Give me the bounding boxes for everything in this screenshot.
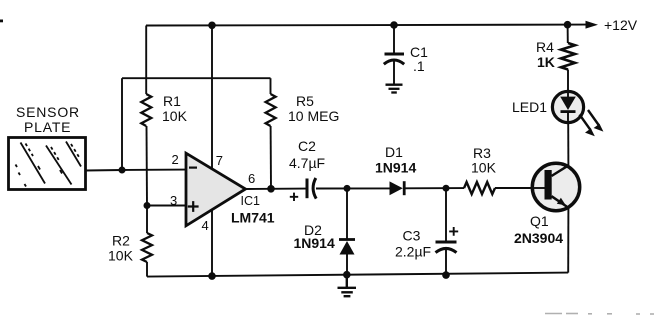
wire R1 bottom to pin3 node [146,126,149,206]
wire feedback left vertical down to pin2 node [121,78,123,170]
diode D1 [390,181,403,195]
capacitor C2 plus sign [290,193,298,201]
svg-text:10K: 10K [471,160,497,176]
svg-text:1K: 1K [537,54,555,70]
stray scan mark left edge [0,20,3,23]
svg-text:R1: R1 [163,93,181,109]
wire R4 to LED1 [567,70,569,92]
wire C1 top stem [393,25,395,53]
node junction top of C1 [390,21,398,29]
svg-text:10K: 10K [108,248,134,264]
svg-text:R5: R5 [296,93,314,109]
node C3 junction [443,185,450,192]
svg-text:D1: D1 [385,144,403,160]
diode D1 cathode bar [403,181,406,195]
node D2 ground junction [343,271,351,279]
sensor plate [9,138,86,190]
wire LED1 to Q1 collector [567,123,569,167]
wire bottom ground rail [147,273,568,277]
op-amp U1 LM741 triangle [186,153,246,226]
resistor R3 [464,182,495,194]
svg-text:IC1: IC1 [241,194,261,208]
node D2 junction [344,185,351,192]
wire left supply vertical to R1 [145,26,147,95]
wire C3 bottom stem [445,250,447,275]
svg-text:.1: .1 [413,58,425,74]
capacitor C3 top plate [436,241,457,244]
svg-text:2N3904: 2N3904 [514,230,563,246]
wire R5 bottom to output node [270,126,272,189]
svg-text:R4: R4 [536,39,554,55]
svg-text:4.7µF: 4.7µF [289,155,325,171]
node junction top of pin7 line [208,22,216,30]
wire R2 bottom stem [146,262,148,277]
node pin3 junction [144,202,151,209]
svg-text:7: 7 [216,153,223,168]
wire pin2 input [122,169,186,171]
ground below D2 [338,275,357,297]
svg-text:10K: 10K [162,108,188,124]
capacitor C3 curved plate [436,248,457,252]
resistor R4 [561,43,575,70]
wire Q1 emitter to bottom rail [567,207,569,273]
wire pin7 vertical [211,25,213,168]
svg-text:SENSOR: SENSOR [16,104,80,120]
svg-text:1N914: 1N914 [375,160,416,176]
svg-text:2.2µF: 2.2µF [395,244,431,260]
wire R2 top stem [146,206,148,234]
svg-text:Q1: Q1 [530,213,549,229]
svg-text:R2: R2 [112,233,130,249]
op-amp minus sign pin2 [189,167,197,169]
wire pin3 input [147,205,186,207]
diode D2 [339,238,355,241]
faint cropped text bottom right [545,313,654,316]
node pin2 junction [119,167,126,174]
wire D1 to C3 node [404,187,464,189]
svg-text:C2: C2 [298,138,316,154]
wire D2 bottom stem [346,255,348,275]
svg-text:+12V: +12V [604,17,638,33]
wire R4 top stem [567,25,569,43]
svg-text:10 MEG: 10 MEG [288,108,339,124]
node pin4 junction bottom [208,272,216,280]
capacitor C1 top plate [385,53,405,56]
svg-text:PLATE: PLATE [24,119,71,135]
LED1 emission arrow 1 [580,115,595,137]
op-amp plus sign pin3 [188,201,199,212]
capacitor C2 plus plate [306,179,309,199]
resistor R5 [266,94,276,126]
capacitor C1 curved plate [384,60,404,64]
svg-text:6: 6 [248,171,255,186]
resistor R1 [141,94,151,126]
capacitor C3 plus sign [449,227,458,236]
wire D2 top stem [346,188,348,238]
svg-text:LM741: LM741 [231,210,275,226]
node C3 ground junction [442,271,450,279]
wire R3 to Q1 base [495,187,545,189]
node output junction R5 [267,185,275,193]
wire +12V top rail [146,24,586,27]
LED1 emission arrow 2 [588,110,603,132]
+12V arrow [586,21,599,29]
svg-text:4: 4 [202,218,209,233]
sensor plate hatch lines [16,142,82,187]
wire pin4 vertical [211,209,213,276]
svg-text:C3: C3 [403,228,421,244]
LED1 [552,91,583,122]
node junction top of R4 [564,21,572,29]
capacitor C2 curved plate [313,178,316,199]
svg-text:LED1: LED1 [512,99,547,115]
ground below C1 [386,85,403,93]
svg-text:2: 2 [172,152,179,167]
svg-text:1N914: 1N914 [294,235,335,251]
wire feedback horizontal [122,77,271,79]
wire op-amp output to C2 [246,188,306,190]
resistor R2 [142,233,152,262]
transistor Q1 2N3904 [532,163,579,210]
wire C3 top stem [445,188,447,240]
wire sensor plate to pin2 node [86,169,123,172]
wire C2 to D1 [316,187,390,189]
svg-text:3: 3 [170,193,177,208]
wire C1 bottom stem [393,62,395,85]
wire R5 top stem [270,78,272,94]
